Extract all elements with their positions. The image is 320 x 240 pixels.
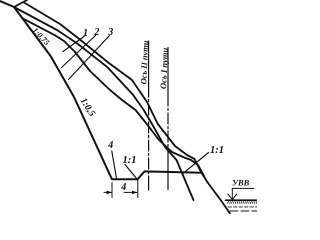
svg-text:Ось I пути: Ось I пути: [158, 47, 170, 89]
svg-text:1:1: 1:1: [123, 155, 137, 166]
svg-text:4: 4: [107, 140, 113, 151]
svg-text:2: 2: [93, 27, 99, 38]
svg-text:1:1: 1:1: [210, 145, 224, 156]
svg-text:4: 4: [120, 182, 126, 193]
svg-text:1: 1: [83, 28, 88, 39]
svg-text:3: 3: [107, 27, 113, 38]
svg-text:Ось II пути: Ось II пути: [139, 40, 150, 85]
svg-text:УВВ: УВВ: [232, 178, 250, 188]
